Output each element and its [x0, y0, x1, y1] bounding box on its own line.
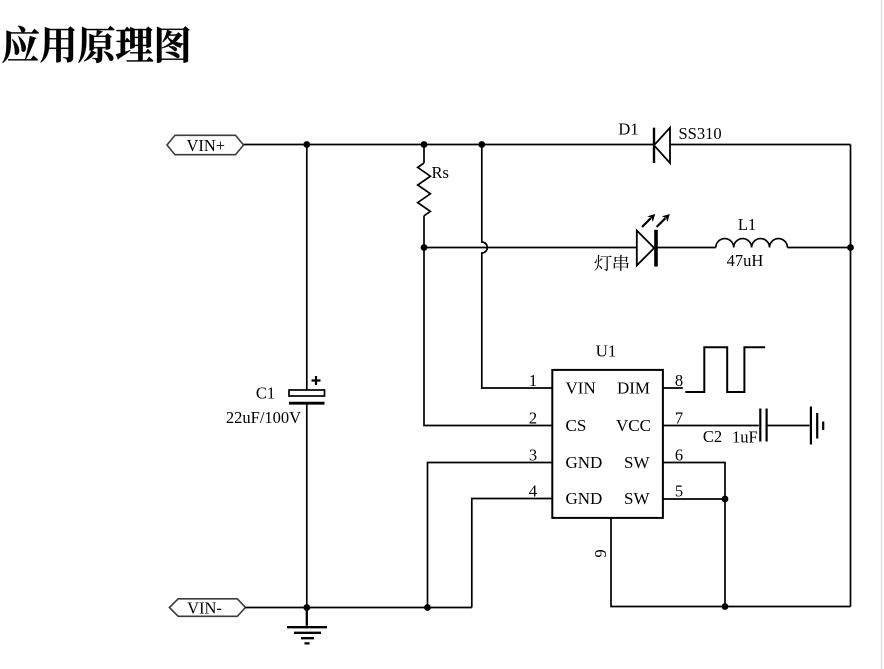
svg-text:1uF: 1uF [732, 427, 758, 446]
ground symbol right [811, 407, 823, 445]
svg-text:22uF/100V: 22uF/100V [226, 408, 301, 427]
wire LED row [424, 247, 851, 249]
svg-text:VIN-: VIN- [187, 598, 222, 617]
title 应用原理图 [2, 26, 189, 63]
svg-text:GND: GND [566, 453, 603, 472]
svg-text:9: 9 [591, 549, 610, 557]
resistor Rs [418, 163, 431, 216]
wire top rail VIN+ [244, 144, 851, 146]
port VIN- [169, 598, 245, 617]
svg-text:8: 8 [675, 371, 683, 390]
inductor L1 [716, 239, 788, 248]
svg-text:CS: CS [566, 416, 587, 435]
svg-text:7: 7 [675, 408, 683, 427]
wire pin 8 stub [663, 387, 683, 389]
svg-text:SS310: SS310 [679, 124, 722, 143]
svg-text:GND: GND [566, 489, 603, 508]
wire pin 3 GND [428, 463, 553, 608]
wire pin 5 SW [663, 499, 725, 607]
svg-text:SW: SW [624, 489, 650, 508]
svg-text:2: 2 [529, 408, 537, 427]
diode D1 [654, 128, 670, 163]
svg-text:3: 3 [529, 445, 537, 464]
PWM waveform [685, 347, 765, 392]
svg-text:4: 4 [529, 481, 537, 500]
label 灯串 [594, 255, 628, 271]
capacitor C1 [289, 376, 325, 403]
svg-text:DIM: DIM [617, 378, 650, 397]
capacitor C2 [760, 409, 766, 442]
wire pin 7 VCC [663, 425, 810, 427]
svg-text:Rs: Rs [432, 163, 449, 182]
svg-text:D1: D1 [618, 119, 638, 138]
svg-text:L1: L1 [738, 215, 756, 234]
IC U1 [552, 370, 663, 518]
svg-text:1: 1 [529, 371, 537, 390]
svg-text:C1: C1 [256, 383, 275, 402]
svg-text:47uH: 47uH [727, 251, 764, 270]
svg-text:U1: U1 [596, 342, 617, 361]
port VIN+ [167, 135, 244, 155]
LED 灯串 [637, 214, 670, 267]
wire pin 4 GND [472, 499, 553, 608]
wire Rs branch to pin 2 [424, 145, 552, 426]
svg-text:C2: C2 [703, 427, 722, 446]
wire pin 1 with hop [482, 145, 553, 389]
ground symbol [287, 608, 327, 644]
wire pin 6 SW [663, 463, 725, 500]
wire pin 9 pad [611, 518, 851, 607]
svg-text:VCC: VCC [616, 416, 651, 435]
svg-text:5: 5 [675, 481, 683, 500]
page edge line [881, 0, 883, 669]
wire right vertical [850, 145, 852, 607]
svg-text:VIN+: VIN+ [186, 136, 225, 155]
svg-text:SW: SW [624, 453, 650, 472]
wire bottom rail left [246, 607, 472, 609]
svg-text:6: 6 [675, 445, 683, 464]
wire C1 branch [306, 145, 308, 608]
svg-text:VIN: VIN [566, 378, 596, 397]
